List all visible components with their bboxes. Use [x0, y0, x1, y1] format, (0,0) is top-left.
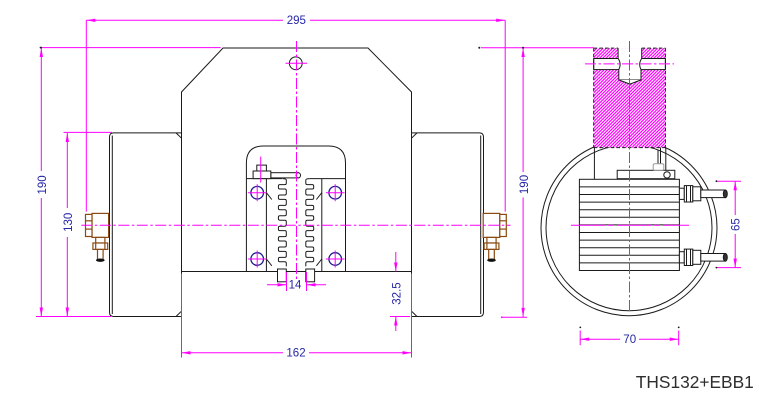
svg-text:162: 162	[286, 347, 305, 359]
svg-text:65: 65	[731, 218, 743, 231]
svg-text:295: 295	[287, 15, 306, 27]
svg-text:THS132+EBB1: THS132+EBB1	[636, 372, 754, 392]
svg-text:14: 14	[289, 280, 302, 292]
svg-text:190: 190	[519, 175, 531, 194]
svg-text:32.5: 32.5	[392, 282, 404, 304]
svg-text:130: 130	[63, 213, 75, 232]
svg-text:70: 70	[623, 334, 636, 346]
svg-text:190: 190	[37, 175, 49, 194]
